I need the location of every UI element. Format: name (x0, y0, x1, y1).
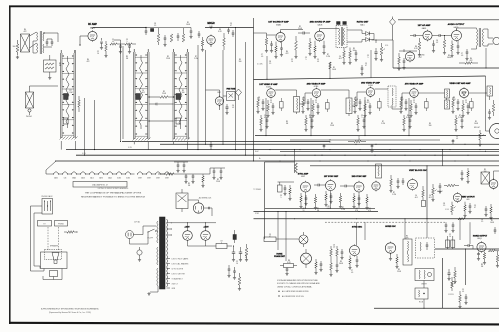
horiz drive wire y249 (435, 248, 499, 250)
svg-text:FINE TUNE: FINE TUNE (227, 89, 237, 91)
tube V16 sync sep (326, 181, 336, 191)
vert blocking transformer (481, 172, 490, 184)
svg-text:.001: .001 (338, 58, 341, 60)
svg-text:10: 10 (291, 61, 293, 63)
oscillator trimmer box (227, 92, 236, 101)
svg-text:(Sponsored by Howard W. Sams &: (Sponsored by Howard W. Sams & Co., Inc.… (49, 311, 92, 314)
socket cap (208, 207, 210, 210)
bus wire y144 (160, 143, 499, 145)
IF AGC bus (255, 135, 486, 137)
svg-text:10: 10 (413, 102, 415, 104)
AC interlock socket (193, 203, 203, 213)
sync row plate parts 2 (339, 196, 341, 202)
svg-text:47: 47 (230, 25, 232, 27)
svg-text:ALL CAPS IN MF UNLESS NOTED: ALL CAPS IN MF UNLESS NOTED (282, 290, 309, 293)
dots on boost bus (294, 218, 295, 219)
vert cap row (439, 185, 442, 187)
vert feed vertical x427 (426, 166, 428, 219)
capacitor C8 (145, 30, 148, 32)
volume control (380, 47, 383, 55)
AGC filter network (110, 43, 117, 45)
bus small parts row (323, 145, 326, 147)
contact resistor R6 (78, 100, 80, 107)
tube V2 mixer (207, 36, 216, 45)
V11 stage network (400, 100, 403, 107)
peaking coils (445, 89, 450, 98)
AFC network column (330, 249, 333, 256)
svg-text:.01: .01 (245, 257, 247, 259)
test point diamond TP2 (390, 19, 396, 26)
bus decoupling cap (210, 144, 213, 146)
svg-text:FOCUS: FOCUS (448, 294, 453, 296)
svg-text:2.2M: 2.2M (381, 123, 385, 125)
svg-text:2ND SYNC SEP: 2ND SYNC SEP (352, 176, 367, 178)
T to V11 grid (391, 105, 393, 109)
svg-text:6K6: 6K6 (466, 199, 469, 201)
capacitor C2 (51, 41, 54, 43)
strip coupling wire low (149, 120, 174, 122)
tube V19B vert out right (489, 180, 498, 189)
rectifier wires (171, 222, 216, 224)
tube V11 4th video IF (410, 89, 419, 98)
tube V17 2nd sync sep (354, 182, 364, 192)
svg-text:6SN7: 6SN7 (138, 177, 142, 179)
boost vertical x465 (465, 249, 467, 285)
strip bottoms to bus (60, 141, 62, 150)
svg-text:RF AMP: RF AMP (88, 23, 97, 26)
boxed resistor video 2 (326, 103, 330, 110)
svg-text:1ST SOUND IF AMP: 1ST SOUND IF AMP (268, 21, 289, 24)
3rd IF transformer (388, 86, 396, 107)
bus stub drops horiz (356, 222, 358, 245)
svg-text:.25: .25 (443, 205, 445, 207)
sound row bottom wire (254, 76, 486, 80)
right edge resistor (489, 250, 496, 252)
picture tube CRT (490, 124, 499, 139)
bleeder resistor (245, 248, 248, 256)
right edge column (496, 255, 499, 262)
boxed resistor video 4 (425, 102, 429, 109)
boxed resistor video 5 (470, 102, 474, 109)
ratio det diode D2 (366, 38, 370, 42)
V6 grid leak (418, 42, 421, 50)
tube D horiz osc (385, 243, 395, 253)
V2 plate resistor (223, 38, 226, 46)
svg-text:PHONO: PHONO (26, 116, 33, 118)
interstage coil L10 (294, 97, 300, 113)
heater diagonal to tuner (46, 161, 56, 170)
strip coupling resistor (149, 96, 160, 98)
svg-text:WIDTH: WIDTH (421, 284, 427, 286)
bus wire y141 (122, 141, 330, 143)
dark cap C46 (233, 235, 236, 240)
svg-text:700V CT: 700V CT (172, 283, 178, 285)
bus junction dots (84, 155, 85, 156)
svg-text:VERT BLOCK OSC: VERT BLOCK OSC (409, 170, 427, 172)
svg-text:.25: .25 (154, 25, 156, 27)
V17 network (353, 196, 355, 202)
svg-text:330: 330 (182, 92, 185, 94)
heater dropping resistor (166, 173, 174, 176)
output transformer T3 (477, 29, 478, 46)
border frame bottom (9, 323, 499, 325)
AC plug (126, 231, 134, 239)
spoke tube A sync inverter (299, 235, 308, 244)
svg-text:.001: .001 (414, 197, 417, 199)
interlock fuse box (176, 193, 188, 209)
sync out wire y208 (265, 207, 375, 209)
svg-text:SOCKETS TO CHASSIS GND WITH NO: SOCKETS TO CHASSIS GND WITH NO SIGNAL AN… (277, 282, 320, 285)
V1 cathode resistor (105, 44, 107, 51)
osc box feed (426, 219, 428, 238)
V15 bias network (300, 196, 302, 202)
svg-text:10: 10 (315, 102, 317, 104)
svg-text:6AG5: 6AG5 (90, 26, 96, 29)
T4 primary windings (157, 221, 158, 243)
svg-text:MIXER: MIXER (207, 23, 215, 25)
V5B parts (398, 57, 401, 64)
lower caps (228, 268, 231, 270)
V2 caps (227, 29, 230, 31)
sync drops (305, 193, 307, 208)
V9 stage network (302, 100, 305, 107)
right edge coil column (492, 104, 495, 112)
svg-text:5: 5 (362, 117, 363, 119)
strip slug boxes (64, 94, 69, 100)
svg-text:1ST AF AMP: 1ST AF AMP (418, 24, 431, 27)
heater chain continuation (138, 172, 143, 174)
svg-text:5: 5 (368, 57, 369, 59)
focus control (451, 281, 454, 288)
cap C11 (177, 35, 180, 37)
svg-text:.01: .01 (112, 41, 114, 43)
strip top stubs (75, 50, 77, 53)
drop wires to sound bottom (266, 56, 268, 79)
svg-text:6CB6: 6CB6 (117, 177, 121, 179)
tube V3 1st sound IF (276, 32, 285, 41)
rectifier tube V13 (183, 231, 193, 241)
vertical wire x94 (94, 100, 96, 150)
linkage dashed (47, 227, 49, 250)
boxed resistor video 1 (280, 102, 284, 109)
T4 secondary winding (167, 219, 168, 287)
fine tuning cap (226, 106, 229, 108)
V7 cathode network (451, 44, 454, 51)
svg-text:2.2M: 2.2M (341, 209, 345, 211)
svg-text:A PROGRESSIVELY SPONSORED TELE: A PROGRESSIVELY SPONSORED TELEVISION SCH… (41, 307, 99, 310)
strip coupling cap (149, 103, 156, 105)
coupling caps x467-473 (467, 244, 469, 247)
sync row plate parts 3 (366, 197, 368, 203)
dropping resistor (295, 163, 298, 173)
V8 stage network (257, 100, 260, 107)
phase det tube V20 (301, 253, 312, 264)
oscillator tube V2B (215, 97, 223, 105)
svg-text:2ND SOUND IF AMP: 2ND SOUND IF AMP (310, 21, 331, 24)
video det load coil (487, 86, 493, 96)
V12 stage network (452, 100, 455, 107)
svg-text:PHONO JACK: PHONO JACK (42, 195, 54, 198)
bus wire y161 (55, 160, 499, 162)
svg-text:BRIGHT: BRIGHT (474, 127, 480, 129)
box wires (423, 281, 425, 289)
svg-text:DET: DET (419, 57, 422, 59)
bus wire y151 (280, 150, 499, 152)
tube V15 sync amp (301, 182, 311, 192)
speaker wiring (31, 270, 45, 272)
V7 grid resistor (443, 40, 446, 48)
V16 network (325, 194, 327, 200)
pilot lamp box (73, 182, 127, 188)
osc cathode parts (390, 253, 392, 257)
vertical wire x84 (84, 98, 86, 155)
svg-text:.01: .01 (317, 61, 319, 63)
svg-text:.05: .05 (461, 55, 463, 57)
cap C12 (190, 30, 193, 32)
tube V1 RF amplifier (88, 31, 97, 40)
osc wires (219, 90, 221, 97)
lower resistor (238, 277, 241, 285)
sync B+ drop (294, 150, 296, 173)
clipper plate box (376, 164, 382, 178)
wire antenna to tuner (44, 32, 58, 34)
svg-text:.02: .02 (436, 42, 438, 44)
capacitor C1 (46, 41, 49, 43)
bus wire y149 (66, 149, 499, 151)
svg-text:5: 5 (127, 41, 128, 43)
svg-text:10: 10 (97, 53, 99, 55)
heater area caps (177, 164, 180, 166)
svg-text:.01: .01 (456, 138, 458, 140)
svg-text:RATIO DET: RATIO DET (357, 21, 369, 24)
svg-text:2.2M: 2.2M (458, 117, 462, 119)
speaker assembly (41, 252, 68, 269)
svg-text:1ST SYNC SEP: 1ST SYNC SEP (324, 176, 339, 178)
V10 stage network (354, 100, 357, 107)
extra bus dots (270, 149, 271, 150)
heater caps (185, 175, 188, 177)
svg-text:TO TUNER: TO TUNER (253, 189, 262, 191)
border frame top (9, 5, 499, 7)
svg-text:DIAL LAMPS NO. 47: DIAL LAMPS NO. 47 (92, 183, 108, 186)
tube C sync disc (350, 246, 360, 256)
height control (432, 188, 435, 195)
dashed control line (325, 221, 445, 223)
resistor R1 300 ohm (16, 44, 19, 52)
phase det input parts (284, 264, 294, 268)
svg-text:6AQ5: 6AQ5 (454, 26, 459, 29)
F cathode parts (477, 253, 480, 255)
svg-text:PHONO: PHONO (58, 224, 65, 226)
svg-text:.05: .05 (329, 142, 331, 144)
yoke bottom wire (374, 307, 499, 309)
svg-text:47: 47 (264, 117, 266, 119)
V3 cathode network (275, 46, 277, 52)
audio takeoff wire (372, 39, 377, 41)
V1 bypass cap (100, 41, 103, 43)
linearity box (415, 288, 428, 299)
svg-text:.05: .05 (261, 56, 263, 58)
vertical wires mixer area (197, 45, 199, 150)
V4 bias parts (309, 42, 312, 49)
IF B+ bus (290, 139, 440, 141)
vert feed caps (461, 172, 464, 174)
width coil box (415, 269, 434, 281)
heater string (54, 172, 59, 174)
svg-text:VOLTAGES MEASURED WITH VTVM FR: VOLTAGES MEASURED WITH VTVM FROM TUBE (277, 279, 318, 282)
svg-text:300: 300 (13, 46, 16, 48)
svg-text:ON-OFF: ON-OFF (147, 238, 153, 240)
sound B+ parts on drop (329, 62, 332, 69)
V1 grid wire (80, 35, 88, 37)
top right feed wire (392, 17, 394, 19)
svg-text:.01: .01 (462, 291, 464, 293)
svg-text:330: 330 (429, 125, 432, 127)
boxed resistor video 3 (378, 102, 382, 109)
stabilizer dashed box (416, 238, 435, 258)
matching pad (44, 60, 57, 72)
svg-text:.02: .02 (333, 247, 335, 249)
horiz output tube F (477, 242, 486, 251)
boxed resistor pair (446, 240, 450, 248)
sync coupling caps (317, 184, 319, 187)
V3 screen resistor (295, 41, 298, 50)
svg-text:47: 47 (474, 207, 476, 209)
svg-text:6AV6: 6AV6 (422, 27, 426, 30)
bus wire y155 (76, 154, 499, 156)
speaker plug (493, 37, 499, 44)
resistor R9 (157, 34, 160, 42)
V15 input network (278, 185, 283, 192)
svg-text:2.2M: 2.2M (326, 56, 330, 58)
sound det tube V5B (405, 52, 414, 61)
antenna input transformer T1 (21, 34, 30, 52)
L10 to V9 grid (300, 103, 306, 105)
tube V4 2nd sound IF (315, 31, 325, 41)
svg-text:.25: .25 (269, 63, 271, 65)
selector plates (38, 221, 52, 227)
tube V7 audio output (452, 31, 462, 41)
T4 upper taps (167, 222, 172, 224)
bus caps above (445, 224, 448, 226)
svg-text:2.2M: 2.2M (69, 92, 73, 94)
svg-text:6SN7: 6SN7 (156, 177, 160, 179)
bias rect circle (137, 250, 142, 255)
svg-text:.05: .05 (351, 272, 353, 274)
svg-text:SPEAKER: SPEAKER (50, 245, 59, 248)
svg-text:.001: .001 (428, 197, 431, 199)
svg-text:B+: B+ (259, 158, 261, 160)
electrolytic C30 (374, 51, 377, 53)
V1 plate wire (92, 28, 94, 30)
wire to yoke vert (493, 171, 495, 180)
svg-text:.25: .25 (481, 221, 483, 223)
interstage coil L11 (346, 98, 352, 114)
svg-text:2.2M: 2.2M (392, 194, 396, 196)
svg-text:5: 5 (281, 197, 282, 199)
rectifier tube V14 (201, 231, 211, 241)
svg-text:V LIN: V LIN (445, 209, 449, 211)
aux resistor (67, 231, 74, 234)
AFC feed verticals (277, 212, 279, 251)
tuner switch strip S1B (133, 52, 135, 139)
ratio det load (343, 51, 346, 58)
bus drop x442 (442, 150, 444, 166)
svg-text:47: 47 (365, 65, 367, 67)
svg-text:VOL: VOL (385, 45, 388, 47)
inverter input box (264, 237, 276, 242)
phase det output parts (315, 262, 317, 268)
svg-text:5V TO V13 HTR: 5V TO V13 HTR (172, 268, 184, 270)
B+ boost bus y218 (254, 218, 499, 220)
tube V10 3rd video IF (366, 88, 375, 97)
vertical wire x123 (122, 46, 124, 139)
yoke vertical wire (442, 258, 444, 308)
tube V12 video det (459, 88, 468, 97)
svg-text:6CB6: 6CB6 (314, 86, 319, 88)
svg-text:6SN7: 6SN7 (147, 177, 151, 179)
svg-text:HORIZ OSC: HORIZ OSC (385, 226, 396, 228)
coupling capacitor (302, 32, 304, 35)
yoke parts cluster (459, 295, 462, 302)
svg-text:+350V: +350V (203, 227, 209, 229)
svg-text:2.2M: 2.2M (194, 58, 198, 60)
svg-text:THE COOPERATION OF THE MANUFAC: THE COOPERATION OF THE MANUFACTURER OF T… (85, 192, 142, 195)
audio B+ wire (392, 40, 394, 68)
tuner switch strip S1A (60, 53, 62, 138)
tube V19 vert output (453, 193, 461, 201)
svg-text:6CB6: 6CB6 (266, 86, 271, 88)
svg-text:AUDIO OUTPUT: AUDIO OUTPUT (448, 23, 465, 26)
sync enclosure verticals (264, 162, 266, 239)
svg-text:SYNC DISC: SYNC DISC (352, 227, 363, 229)
svg-text:6AU6: 6AU6 (318, 23, 323, 26)
svg-text:6AL5: 6AL5 (360, 23, 364, 26)
boxed filter resistor (216, 244, 227, 249)
audio misc parts (466, 51, 469, 53)
svg-text:330: 330 (239, 61, 242, 63)
svg-text:.01: .01 (270, 102, 272, 104)
L11 to V10 grid (352, 105, 357, 107)
svg-text:VIDEO DET AND AMP: VIDEO DET AND AMP (449, 82, 471, 85)
vert lin control (451, 205, 454, 212)
AGC drops (265, 98, 267, 136)
svg-text:6SN7: 6SN7 (165, 177, 169, 179)
tube V8 1st video IF (267, 89, 276, 98)
phono switch box (42, 199, 53, 215)
svg-text:10: 10 (236, 263, 238, 265)
vert osc grid parts (390, 179, 393, 186)
tube V17B clipper (372, 182, 380, 190)
osc coil box (403, 239, 412, 265)
svg-text:ALL RESISTORS 1/2 W 10%: ALL RESISTORS 1/2 W 10% (282, 295, 304, 298)
svg-text:47: 47 (269, 236, 271, 238)
tuner switch strip S1C (172, 52, 174, 139)
vertical wire x253 (253, 18, 255, 161)
heater right caps (213, 170, 216, 172)
B+ wires right (232, 245, 236, 247)
transformer label blobs (337, 22, 341, 25)
svg-text:6J6: 6J6 (64, 177, 67, 179)
vert out cathode parts (464, 205, 466, 211)
svg-text:AC INTERLOCK: AC INTERLOCK (199, 197, 212, 200)
diode junction wires (373, 34, 375, 41)
svg-text:.001: .001 (141, 92, 144, 94)
tube V18 vert osc (408, 180, 418, 190)
tube V6 1st AF (423, 31, 432, 40)
sync out wire y211 (254, 211, 379, 213)
svg-text:RECEIVER MAKES IT POSSIBLE TO: RECEIVER MAKES IT POSSIBLE TO BRING YOU … (81, 196, 146, 199)
